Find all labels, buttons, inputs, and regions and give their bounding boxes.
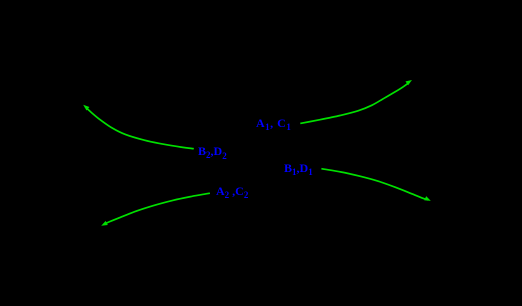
trajectory curve upper-left (B2,D2 branch) bbox=[85, 107, 194, 149]
label B2,D2 bbox=[198, 145, 227, 157]
label B1,D1 bbox=[284, 162, 313, 174]
label A2 ,C2 bbox=[216, 185, 248, 197]
trajectory curve lower-right (B1,D1 branch) bbox=[321, 169, 428, 200]
arrowhead upper-right bbox=[406, 80, 413, 85]
arrowhead lower-left bbox=[101, 221, 108, 226]
arrowhead upper-left bbox=[83, 105, 89, 111]
trajectory curve upper-right (A1,C1 branch) bbox=[300, 83, 408, 123]
label A1, C1 bbox=[256, 117, 291, 129]
arrowhead lower-right bbox=[424, 196, 431, 201]
trajectory curve lower-left (A2,C2 branch) bbox=[104, 193, 210, 224]
